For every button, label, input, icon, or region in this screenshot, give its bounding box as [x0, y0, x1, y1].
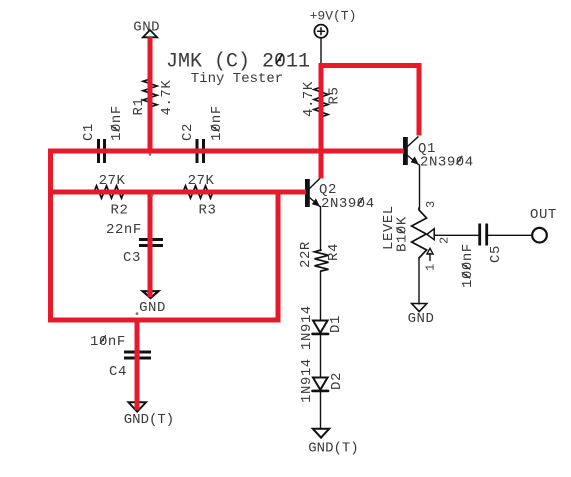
transistor Q1	[403, 137, 419, 165]
zero slash 10nF C4	[100, 336, 105, 344]
zero slash 100nF (second)	[462, 264, 470, 269]
svg-text:R5: R5	[327, 87, 343, 105]
capacitor C2	[197, 139, 204, 163]
zero slash 2N3904 Q1	[457, 156, 462, 164]
wire C4 branch to GND(T)	[135, 318, 140, 411]
zero slash title 2011	[276, 55, 282, 64]
junction dot node A	[149, 153, 152, 156]
wire R5 to Q2 collector	[319, 63, 324, 179]
wire right vertical (Q2 base to bus)	[276, 190, 281, 323]
svg-text:GND(T): GND(T)	[308, 441, 358, 457]
wire C3 branch to GND	[148, 190, 153, 298]
svg-text:OUT: OUT	[530, 207, 557, 223]
capacitor C3	[139, 240, 163, 246]
power symbol +9V(T)	[314, 25, 327, 38]
svg-text:C4: C4	[109, 364, 127, 380]
capacitor C4	[124, 352, 151, 358]
svg-text:GND: GND	[408, 311, 435, 327]
svg-text:100nF: 100nF	[460, 243, 476, 288]
capacitor C5	[480, 224, 487, 246]
junction dot bus/C4	[136, 312, 139, 315]
ground GND(T) (C4 branch)	[129, 402, 147, 411]
ground GND (C3 branch)	[143, 291, 159, 298]
svg-text:10nF: 10nF	[90, 334, 126, 350]
svg-text:GND: GND	[139, 300, 166, 316]
ground GND (top of R1)	[143, 30, 157, 37]
wire Q1 emitter to pot	[419, 165, 421, 209]
svg-text:3: 3	[424, 200, 438, 208]
wire left vertical	[48, 149, 53, 323]
svg-text:R2: R2	[111, 203, 129, 219]
diode D2	[313, 378, 329, 391]
svg-text:10nF: 10nF	[209, 105, 225, 141]
wire D2 to ground	[320, 391, 322, 429]
wire bottom bus	[48, 318, 281, 323]
svg-text:1N914: 1N914	[299, 358, 315, 403]
diode D1	[313, 321, 329, 334]
svg-text:R3: R3	[199, 203, 217, 219]
svg-text:27K: 27K	[99, 173, 126, 189]
svg-text:Tiny Tester: Tiny Tester	[191, 71, 283, 87]
wire R4 to D1	[320, 271, 322, 321]
svg-text:R4: R4	[326, 243, 342, 261]
transistor Q2	[305, 179, 320, 207]
svg-text:C5: C5	[488, 245, 504, 263]
wire D1 to D2	[320, 334, 322, 378]
svg-text:C3: C3	[123, 250, 141, 266]
zero slash B10K	[397, 228, 405, 233]
svg-text:27K: 27K	[188, 173, 215, 189]
resistor R4	[315, 250, 329, 271]
wire node A horizontal (C1 C2 to Q1 base)	[48, 149, 404, 154]
wire to Q1 collector	[417, 63, 422, 136]
svg-text:2N3904: 2N3904	[420, 155, 474, 171]
resistor R5	[314, 87, 328, 117]
resistor R3	[183, 186, 213, 198]
wire Q2 emitter to R4	[320, 207, 322, 251]
zero slash 10nF C2	[211, 126, 219, 131]
svg-text:C1: C1	[81, 123, 97, 141]
wire pot to ground	[418, 258, 420, 304]
svg-text:B10K: B10K	[395, 216, 411, 252]
svg-text:D2: D2	[329, 372, 345, 390]
capacitor C1	[99, 139, 105, 163]
svg-text:GND(T): GND(T)	[124, 412, 174, 428]
ground GND(T) (diode chain)	[313, 429, 329, 438]
slashed-zero strokes (CAD font style)	[100, 55, 470, 344]
svg-text:10nF: 10nF	[109, 105, 125, 141]
node OUT pad	[532, 228, 547, 243]
wire node B horizontal (R2 R3 to Q2 base)	[48, 190, 306, 195]
wire +9V rail horizontal	[319, 63, 422, 68]
resistor R2	[94, 186, 124, 198]
svg-text:GND: GND	[133, 19, 160, 35]
svg-text:4.7K: 4.7K	[159, 80, 175, 116]
zero slash 2N3904 Q2	[358, 198, 363, 206]
svg-text:4.7K: 4.7K	[301, 81, 317, 117]
svg-text:+9V(T): +9V(T)	[310, 9, 357, 24]
svg-text:JMK (C) 2011: JMK (C) 2011	[166, 50, 310, 73]
svg-text:1: 1	[424, 263, 438, 271]
svg-text:C2: C2	[180, 123, 196, 141]
potentiometer LEVEL B10K	[412, 208, 435, 261]
svg-text:2: 2	[438, 236, 452, 244]
junction dot node B/C3	[151, 194, 154, 197]
zero slash 10nF C1	[111, 126, 119, 131]
wire pot wiper to C5	[434, 234, 478, 236]
svg-text:R1: R1	[131, 98, 147, 116]
svg-text:D1: D1	[328, 315, 344, 333]
wire GND to R1 to node A	[148, 37, 153, 154]
ground GND (pot)	[412, 304, 427, 312]
zero slash 100nF (first)	[462, 273, 470, 278]
resistor R1	[143, 79, 157, 107]
svg-text:1N914: 1N914	[299, 305, 315, 350]
wire C5 to OUT	[486, 234, 532, 236]
svg-text:2N3904: 2N3904	[321, 196, 375, 212]
wire +9V stem	[320, 38, 322, 64]
svg-text:22nF: 22nF	[106, 222, 142, 238]
svg-text:22R: 22R	[298, 241, 314, 268]
